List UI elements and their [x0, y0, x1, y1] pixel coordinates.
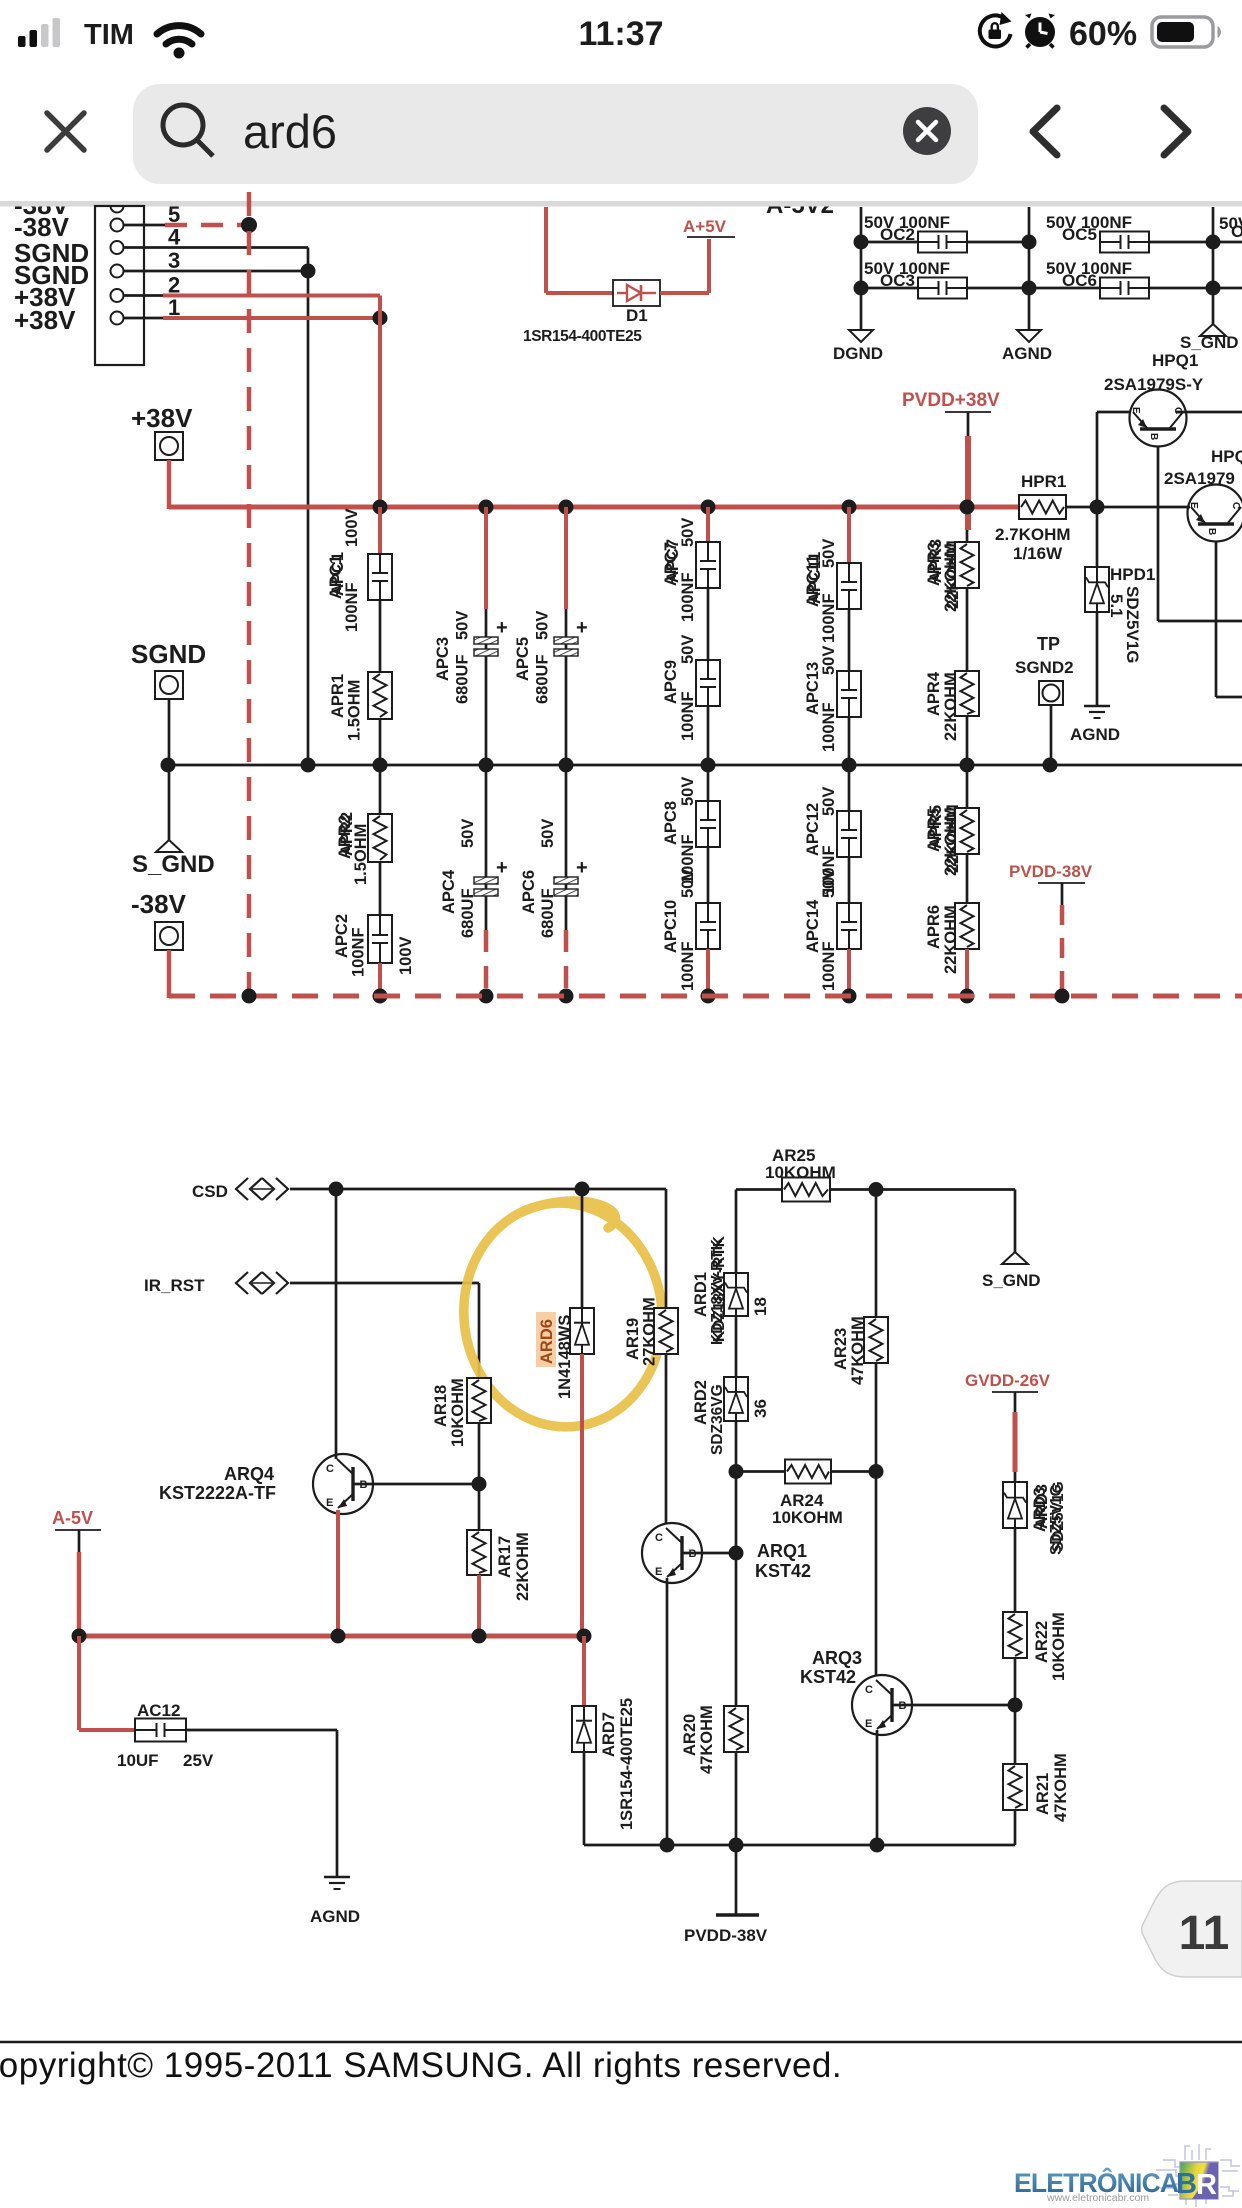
- svg-text:C: C: [1230, 502, 1241, 509]
- capacitor APC12 100NF 50V: [848, 765, 851, 811]
- wire ARQ3 base: [892, 1704, 1015, 1707]
- svg-text:1SR154-400TE25: 1SR154-400TE25: [618, 1698, 636, 1830]
- svg-text:TP: TP: [1037, 634, 1060, 654]
- wire ARD1 column top: [735, 1190, 738, 1274]
- svg-text:100V: 100V: [397, 936, 415, 975]
- svg-text:APC6: APC6: [520, 870, 538, 914]
- svg-text:+38V: +38V: [14, 305, 76, 335]
- svg-text:100NF: 100NF: [350, 927, 368, 977]
- svg-text:AR22: AR22: [1033, 1621, 1051, 1663]
- svg-text:3: 3: [168, 248, 180, 273]
- svg-text:AC12: AC12: [137, 1701, 180, 1720]
- wire HPQ1 base down: [1157, 447, 1160, 621]
- svg-text:4: 4: [168, 225, 181, 250]
- PVDD+38V feed wire: [965, 436, 971, 530]
- capacitor APC1 100NF 100V: [378, 507, 382, 554]
- svg-text:O: O: [1231, 222, 1242, 241]
- svg-text:E: E: [655, 1566, 662, 1578]
- -38V dashed bus: [169, 994, 1242, 999]
- svg-text:E: E: [1130, 407, 1141, 414]
- svg-text:10KOHM: 10KOHM: [772, 1508, 843, 1527]
- ground AGND (top): [1017, 330, 1041, 342]
- connector pin 3: [111, 265, 124, 278]
- svg-text:+: +: [576, 857, 588, 879]
- svg-text:ARQ4: ARQ4: [224, 1464, 274, 1484]
- ground AGND (HPD1): [1084, 706, 1110, 718]
- svg-text:1.5OHM: 1.5OHM: [346, 680, 364, 741]
- resistor AR19 27KOHM: [665, 1189, 668, 1308]
- wire ARD1 to ARD2: [735, 1316, 738, 1377]
- svg-text:ARD7: ARD7: [600, 1712, 618, 1757]
- wire AR18 to ARQ4 base node: [478, 1423, 481, 1530]
- pin 2 wire (+38V): [124, 294, 166, 297]
- previous result chevron: [1033, 108, 1057, 155]
- svg-text:50V: 50V: [679, 635, 697, 664]
- ground S_GND (left): [156, 840, 182, 852]
- svg-text:GVDD-26V: GVDD-26V: [965, 1371, 1051, 1390]
- svg-text:OC5: OC5: [1062, 225, 1097, 244]
- +38V vertical wire from connector: [378, 296, 382, 508]
- wire ARD2 to AR24 node: [735, 1421, 738, 1553]
- capacitor AC12 10UF 25V: [77, 1636, 81, 1730]
- wire ARD7 to PVDD-38V bus: [583, 1752, 586, 1845]
- PVDD-38V rail symbol: [735, 1845, 738, 1915]
- wire APR4 to SGND bus: [966, 716, 969, 765]
- wire ARD2 column to AR20: [735, 1553, 738, 1706]
- zener diode HPD1 SDZ5V1G: [1085, 567, 1109, 612]
- svg-text:47KOHM: 47KOHM: [1052, 1753, 1070, 1822]
- wire APR5 to APR6: [966, 854, 969, 903]
- capacitor APC6 680UF 50V: [565, 765, 568, 930]
- svg-text:C: C: [326, 1463, 334, 1475]
- resistor AR24 10KOHM: [736, 1470, 785, 1473]
- resistor APR2 1.5OHM: [379, 765, 382, 814]
- PVDD-38V dashed stub: [1060, 905, 1065, 996]
- page number tab 11: [1142, 1881, 1242, 1977]
- svg-text:50V: 50V: [820, 787, 838, 816]
- svg-text:50V: 50V: [679, 869, 697, 898]
- svg-text:S_GND: S_GND: [982, 1271, 1041, 1290]
- svg-text:+: +: [576, 617, 588, 639]
- page edge band: [0, 184, 1242, 201]
- svg-text:E: E: [326, 1497, 333, 1509]
- wire SGND terminal to bus: [168, 699, 171, 765]
- svg-text:AGND: AGND: [1002, 344, 1052, 363]
- capacitor APC3 680UF 50V: [484, 507, 488, 609]
- connector pin 1: [111, 312, 124, 325]
- wire ARD3 to AR22: [1014, 1528, 1017, 1612]
- svg-text:APC5: APC5: [514, 637, 532, 681]
- svg-text:50V: 50V: [679, 518, 697, 547]
- wire APC11 to APC13: [848, 609, 851, 671]
- wire ARQ4 emitter to A-5V bus: [336, 1510, 340, 1636]
- battery icon: [1152, 17, 1221, 47]
- svg-text:APC9: APC9: [662, 660, 680, 704]
- svg-text:Copyright© 1995-2011 SAMSUNG.: Copyright© 1995-2011 SAMSUNG. All rights…: [0, 2046, 842, 2085]
- wire -38V to dashed bus: [167, 950, 172, 998]
- svg-text:100NF: 100NF: [679, 572, 697, 622]
- svg-text:www.eletronicabr.com: www.eletronicabr.com: [1046, 2192, 1149, 2204]
- svg-text:50V: 50V: [679, 777, 697, 806]
- svg-text:SDZ5V1G: SDZ5V1G: [1050, 1481, 1067, 1552]
- svg-text:11: 11: [1179, 1907, 1230, 1960]
- svg-text:ARQ3: ARQ3: [812, 1648, 862, 1668]
- svg-text:680UF: 680UF: [534, 654, 552, 704]
- ground S_GND (top): [1200, 324, 1226, 336]
- search field: [133, 84, 978, 184]
- alarm clock icon: [1025, 14, 1055, 48]
- svg-text:100NF: 100NF: [820, 593, 838, 643]
- pin 3 wire (SGND): [124, 270, 309, 273]
- svg-text:100NF: 100NF: [343, 582, 361, 632]
- wire APC8 to APC10: [707, 846, 710, 903]
- resistor APR3 22KOHM: [966, 530, 969, 542]
- svg-text:APR6: APR6: [925, 905, 943, 949]
- svg-text:AR19: AR19: [624, 1318, 642, 1360]
- svg-text:AR18: AR18: [432, 1385, 450, 1427]
- svg-text:HPQ1: HPQ1: [1152, 351, 1198, 370]
- svg-text:APC10: APC10: [662, 900, 680, 953]
- svg-text:CSD: CSD: [192, 1182, 228, 1201]
- wire APC6 to -38V bus (dashed): [564, 930, 569, 994]
- wire ARD6 to A-5V bus: [580, 1354, 584, 1636]
- wire AR21 to PVDD-38V bus: [1014, 1810, 1017, 1845]
- svg-text:S_GND: S_GND: [132, 851, 215, 878]
- wire HPQ1 emitter: [1097, 411, 1130, 414]
- wire APC12 to APC14: [848, 857, 851, 903]
- pin 5 wire to -38V dashed net: [124, 224, 166, 227]
- svg-text:2.7KOHM: 2.7KOHM: [995, 525, 1071, 544]
- svg-text:100V: 100V: [343, 508, 361, 547]
- svg-text:36: 36: [751, 1399, 770, 1418]
- +38V power bus: [169, 505, 1019, 510]
- svg-text:KST42: KST42: [755, 1561, 811, 1581]
- wire HPR1 to HPQ2: [1066, 506, 1190, 509]
- orientation lock icon: [980, 12, 1012, 46]
- IR_RST net wire: [290, 1282, 479, 1285]
- svg-text:100NF: 100NF: [679, 691, 697, 741]
- svg-text:SDZ5V1G: SDZ5V1G: [1123, 586, 1142, 663]
- svg-text:-38V: -38V: [131, 889, 187, 919]
- resistor APR5 22KOHM: [966, 765, 969, 808]
- svg-text:AR21: AR21: [1034, 1773, 1052, 1815]
- -38V dashed vertical wire: [247, 192, 252, 996]
- wire AR25 to S_GND: [1014, 1190, 1017, 1253]
- svg-text:E: E: [865, 1718, 872, 1730]
- svg-text:HPD1: HPD1: [1110, 565, 1155, 584]
- svg-text:APC2: APC2: [333, 914, 351, 958]
- wire to HPD1: [1096, 507, 1099, 567]
- resistor AR23 47KOHM: [875, 1190, 878, 1318]
- wire APR1 to SGND bus: [379, 719, 382, 765]
- wire APC14 to -38V bus: [847, 949, 851, 996]
- diode D1: [613, 280, 660, 306]
- svg-text:11:37: 11:37: [578, 15, 663, 53]
- svg-text:50V: 50V: [534, 611, 552, 640]
- wire APR2 to APC2: [379, 862, 382, 915]
- svg-text:IR_RST: IR_RST: [144, 1276, 205, 1295]
- svg-text:50V: 50V: [820, 869, 838, 898]
- svg-text:AGND: AGND: [1070, 725, 1120, 744]
- svg-text:1SR154-400TE25: 1SR154-400TE25: [523, 328, 642, 345]
- svg-text:ARD6: ARD6: [538, 1319, 556, 1364]
- wire AR23 to AR24 node: [875, 1363, 878, 1472]
- svg-text:SGND2: SGND2: [1015, 658, 1074, 677]
- wire to D1 anode: [544, 207, 548, 293]
- diode ARD6 1N4148WS (highlighted): [536, 1312, 556, 1367]
- svg-text:AR17: AR17: [496, 1536, 514, 1578]
- wire ARQ4 collector: [335, 1189, 338, 1459]
- pin 4 wire (SGND): [124, 246, 309, 249]
- EletronicaBR logo: [1014, 2144, 1240, 2207]
- wire APC4 to -38V bus (dashed): [484, 930, 489, 994]
- svg-text:1/16W: 1/16W: [1013, 544, 1063, 563]
- wire AC12 to AGND: [186, 1729, 337, 1732]
- svg-text:+: +: [496, 617, 508, 639]
- ground DGND: [849, 330, 873, 342]
- pin 1 wire (+38V): [124, 317, 166, 320]
- svg-text:C: C: [865, 1684, 873, 1696]
- wire TP to SGND bus: [1050, 705, 1053, 765]
- svg-text:DGND: DGND: [833, 344, 883, 363]
- svg-text:APC3: APC3: [434, 637, 452, 681]
- wire HPD1 to AGND: [1096, 612, 1099, 706]
- magnifier icon: [163, 105, 213, 156]
- svg-text:680UF: 680UF: [454, 654, 472, 704]
- svg-text:100NF: 100NF: [820, 702, 838, 752]
- svg-text:25V: 25V: [183, 1751, 214, 1770]
- svg-text:KST42: KST42: [800, 1667, 856, 1687]
- wire AR19 to ARQ1 collector: [665, 1354, 668, 1524]
- svg-text:22KOHM: 22KOHM: [514, 1532, 532, 1601]
- wire CSD to ARD6: [581, 1189, 584, 1308]
- wifi icon: [157, 26, 201, 44]
- svg-text:10UF: 10UF: [117, 1751, 159, 1770]
- wire ARQ3 collector: [875, 1472, 878, 1677]
- svg-text:TIM: TIM: [84, 19, 134, 51]
- svg-text:AR20: AR20: [681, 1714, 699, 1756]
- wire APC1 to APR1: [379, 600, 382, 672]
- svg-text:KST2222A-TF: KST2222A-TF: [159, 1483, 276, 1503]
- wire ARQ1 emitter down: [666, 1578, 669, 1845]
- wire APC10 to -38V bus: [706, 949, 710, 996]
- svg-text:47KOHM: 47KOHM: [698, 1705, 716, 1774]
- svg-text:60%: 60%: [1069, 15, 1137, 53]
- wire APC2 to -38V bus: [378, 963, 382, 996]
- yellow highlighter mark around ARD6: [451, 1192, 675, 1438]
- svg-text:APR4: APR4: [925, 671, 943, 716]
- page bottom rule: [0, 2041, 1242, 2044]
- close (X) button: [47, 113, 84, 150]
- connector CN housing: [95, 206, 144, 365]
- SGND bus: [168, 764, 1242, 767]
- zener diode ARD3 SDZ5V1G: [1014, 1472, 1017, 1482]
- svg-text:HPR1: HPR1: [1021, 472, 1066, 491]
- svg-text:AR23: AR23: [832, 1328, 850, 1370]
- diode ARD7 1SR154-400TE25: [582, 1636, 586, 1706]
- svg-text:50V: 50V: [459, 819, 477, 848]
- svg-text:50V: 50V: [820, 646, 838, 675]
- svg-text:APC4: APC4: [440, 869, 458, 914]
- wire ARQ1 base: [682, 1552, 736, 1555]
- svg-text:APC8: APC8: [662, 801, 680, 845]
- svg-text:+38V: +38V: [131, 403, 193, 433]
- capacitor APC4 680UF 50V: [485, 765, 488, 930]
- wire APC9 to SGND bus: [707, 706, 710, 765]
- svg-text:B: B: [1176, 2168, 1197, 2200]
- wire APR6 to -38V bus: [965, 949, 969, 996]
- connector pin 4: [111, 241, 124, 254]
- svg-text:+: +: [496, 857, 508, 879]
- capacitor APC7 100NF 50V: [706, 507, 710, 542]
- svg-text:APR1: APR1: [329, 674, 347, 718]
- status bar signal strength icon: [18, 18, 60, 47]
- wire APC7 to APC9: [707, 588, 710, 660]
- svg-text:18: 18: [751, 1297, 770, 1316]
- svg-text:PVDD-38V: PVDD-38V: [684, 1926, 768, 1945]
- svg-text:AGND: AGND: [310, 1907, 360, 1926]
- svg-text:ARD1: ARD1: [692, 1272, 710, 1317]
- svg-text:B: B: [1206, 528, 1217, 535]
- GVDD-26V feed wire: [1013, 1412, 1018, 1472]
- svg-text:ard6: ard6: [243, 105, 337, 158]
- capacitor APC5 680UF 50V: [564, 507, 568, 609]
- svg-text:SGND: SGND: [131, 639, 206, 669]
- wire ARQ4 base: [353, 1483, 479, 1486]
- A-5V bus: [79, 1634, 584, 1639]
- wire DGND column: [860, 207, 863, 330]
- svg-text:50V: 50V: [820, 539, 838, 568]
- svg-text:50V: 50V: [539, 819, 557, 848]
- wire to S_GND symbol: [168, 765, 171, 840]
- connector pin 6 (clipped): [111, 206, 124, 213]
- svg-text:C: C: [655, 1532, 663, 1544]
- svg-text:R: R: [1196, 2169, 1217, 2201]
- svg-text:10KOHM: 10KOHM: [1050, 1612, 1068, 1681]
- svg-text:A-5V: A-5V: [52, 1508, 93, 1528]
- CSD net wire: [290, 1188, 666, 1191]
- wire AR22 to ARQ3 base node: [1014, 1658, 1017, 1764]
- wire ARQ3 emitter: [876, 1730, 879, 1845]
- svg-text:50V: 50V: [454, 611, 472, 640]
- wire HPQ2 base down: [1215, 542, 1218, 697]
- capacitor APC8 100NF 50V: [707, 765, 710, 801]
- wire AR17 to A-5V bus: [477, 1575, 481, 1636]
- wire HPQ1 collector to edge: [1176, 411, 1242, 414]
- SGND vertical wire: [307, 248, 310, 766]
- svg-text:100NF: 100NF: [679, 941, 697, 991]
- ground AGND (bottom): [324, 1877, 350, 1889]
- wire AR20 to PVDD-38V bus: [735, 1752, 738, 1845]
- wire APR3 to APR4: [966, 588, 969, 671]
- svg-text:B: B: [1148, 433, 1159, 440]
- svg-text:S_GND: S_GND: [1180, 333, 1239, 352]
- ground S_GND (AR25): [1002, 1252, 1028, 1264]
- connector pin 2: [111, 289, 124, 302]
- A-5V feed wire: [77, 1552, 82, 1636]
- next result chevron: [1164, 108, 1188, 155]
- connector pin 5: [111, 219, 124, 232]
- clear search button: [903, 107, 951, 155]
- svg-text:PVDD-38V: PVDD-38V: [1009, 862, 1093, 881]
- PVDD-38V bottom bus: [584, 1844, 1015, 1847]
- wire AGND column: [1028, 207, 1031, 330]
- wire +38V to bus: [167, 460, 172, 509]
- capacitor APC11 100NF 50V: [847, 507, 851, 563]
- svg-text:10KOHM: 10KOHM: [449, 1378, 467, 1447]
- svg-text:100NF: 100NF: [820, 941, 838, 991]
- svg-text:A+5V: A+5V: [683, 217, 727, 236]
- svg-text:PVDD+38V: PVDD+38V: [902, 390, 1000, 411]
- svg-text:HPQ: HPQ: [1211, 447, 1242, 466]
- wire APC13 to SGND bus: [848, 716, 851, 765]
- wire D1 cathode to A+5V: [660, 291, 709, 295]
- svg-text:ARQ1: ARQ1: [757, 1541, 807, 1561]
- svg-text:D1: D1: [626, 306, 648, 325]
- wire S_GND column: [1212, 207, 1215, 324]
- svg-text:ARD2: ARD2: [692, 1380, 710, 1425]
